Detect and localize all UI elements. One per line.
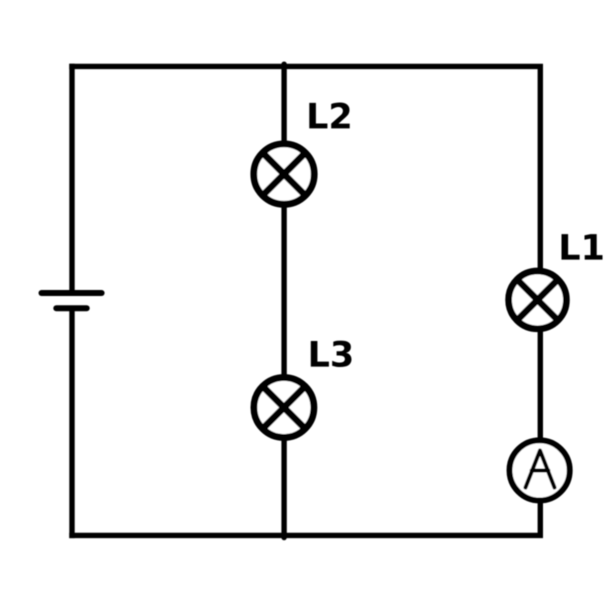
ammeter A1 circle xyxy=(509,440,569,500)
wire bottom horizontal xyxy=(72,533,540,538)
wire left upper (top rail to battery) xyxy=(69,66,74,290)
lamp L3 circle xyxy=(254,378,314,438)
battery BT1 long plate (positive) xyxy=(42,290,102,296)
lamp L2 circle xyxy=(254,144,314,204)
wire right branch xyxy=(538,66,543,535)
label L1 xyxy=(562,234,603,260)
ammeter A1 letter A xyxy=(526,451,555,488)
battery BT1 short plate (negative) xyxy=(56,305,86,311)
label L3 xyxy=(311,341,352,367)
lamp L1 cross xyxy=(517,280,558,321)
lamp L2 cross xyxy=(263,153,306,196)
wire top horizontal xyxy=(72,64,540,69)
wire middle branch xyxy=(281,64,286,537)
lamp L1 circle xyxy=(509,271,567,329)
label L2 xyxy=(309,103,349,129)
lamp L3 cross xyxy=(263,386,305,428)
wire left lower (battery to bottom rail) xyxy=(69,308,74,535)
